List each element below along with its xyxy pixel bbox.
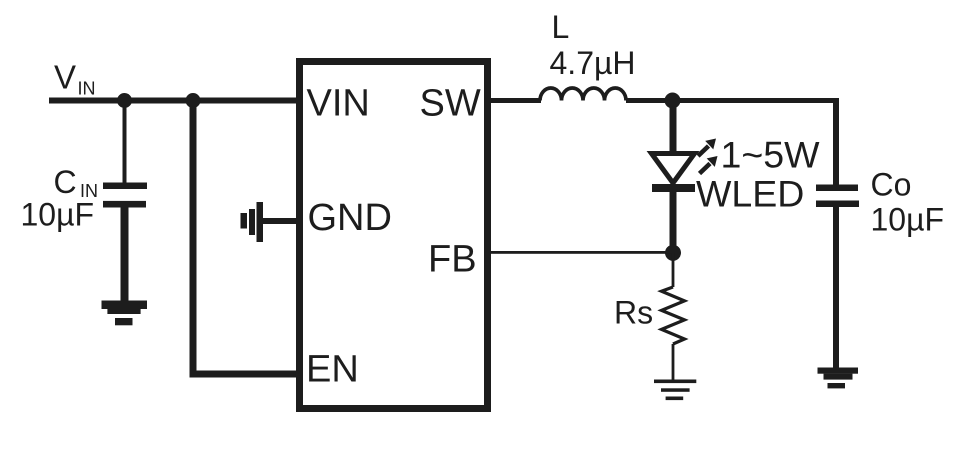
LED emission arrow 2 — [700, 156, 718, 174]
junction: SW node / LED anode — [665, 93, 681, 109]
svg-text:WLED: WLED — [696, 173, 804, 215]
wire: LED anode — [670, 100, 677, 153]
wire: Co branch vertical — [833, 98, 839, 185]
wire: SW output — [491, 98, 541, 103]
svg-text:1~5W: 1~5W — [721, 134, 821, 176]
junction: VIN / EN branch — [186, 93, 201, 108]
label CIN — [54, 164, 99, 201]
svg-text:EN: EN — [306, 349, 359, 391]
wire: LED cathode to FB node — [670, 192, 677, 253]
capacitor Co — [816, 185, 859, 208]
svg-text:10µF: 10µF — [871, 202, 945, 238]
svg-text:10µF: 10µF — [21, 197, 95, 233]
junction: FB / Rs node — [665, 245, 681, 261]
LED emission arrow 1 — [698, 139, 716, 157]
op-amp U1 (regulator IC body) — [300, 62, 488, 409]
svg-text:SW: SW — [420, 83, 481, 125]
wire: EN branch horizontal — [190, 371, 297, 378]
ground (CIN) — [102, 301, 148, 326]
svg-text:IN: IN — [78, 79, 96, 99]
svg-text:L: L — [552, 9, 570, 45]
svg-text:Co: Co — [871, 167, 912, 203]
ground (Rs, earth) — [654, 380, 696, 401]
inductor L1 — [540, 88, 626, 101]
ground (Co) — [818, 368, 859, 389]
capacitor CIN — [103, 183, 147, 208]
wire: CIN to ground — [121, 207, 129, 301]
wire: inductor to Co corner — [626, 98, 839, 103]
svg-text:Rs: Rs — [614, 295, 653, 331]
ground (GND pin, sideways) — [241, 202, 264, 242]
wire: GND pin — [262, 218, 296, 224]
node VIN label — [54, 59, 96, 99]
svg-text:C: C — [54, 164, 77, 200]
wire: Co to ground — [833, 207, 839, 368]
wire: node to Rs — [672, 253, 675, 287]
svg-text:4.7µH: 4.7µH — [550, 45, 636, 81]
junction: VIN / CIN — [117, 93, 132, 108]
resistor Rs — [662, 287, 685, 344]
wire: VIN input rail — [49, 98, 296, 104]
svg-text:VIN: VIN — [307, 83, 370, 125]
svg-text:FB: FB — [428, 239, 477, 281]
wire: EN branch vertical — [190, 97, 197, 378]
svg-text:GND: GND — [308, 197, 392, 239]
wire: CIN branch — [123, 100, 127, 183]
diode D1 WLED — [652, 154, 696, 193]
wire: Rs to ground — [672, 344, 675, 380]
svg-text:V: V — [54, 59, 76, 96]
wire: FB feedback — [491, 251, 673, 254]
